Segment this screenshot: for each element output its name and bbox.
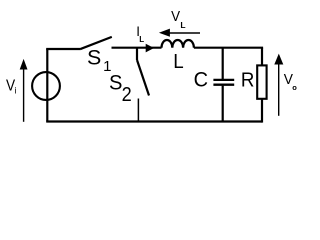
svg-text:L: L	[173, 51, 184, 74]
svg-text:S: S	[109, 71, 122, 95]
svg-text:S: S	[87, 45, 101, 69]
svg-text:L: L	[139, 35, 144, 44]
svg-text:o: o	[292, 83, 297, 92]
svg-text:V: V	[171, 8, 181, 24]
svg-text:C: C	[194, 68, 208, 92]
svg-text:i: i	[15, 85, 17, 95]
svg-text:R: R	[241, 69, 255, 92]
svg-text:2: 2	[122, 84, 132, 106]
svg-text:L: L	[180, 20, 185, 30]
